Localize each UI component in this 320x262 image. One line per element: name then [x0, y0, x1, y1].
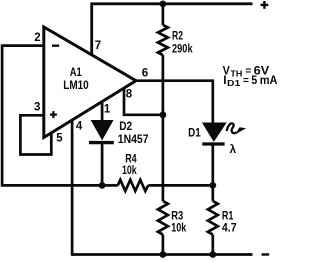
diode D2 — [89, 121, 114, 143]
svg-text:R4: R4 — [125, 154, 137, 166]
annotation VTH = 6V — [223, 63, 270, 78]
node D2/R4 junction dot — [99, 182, 106, 189]
LED lambda label — [230, 144, 237, 156]
node D1/R4/R1 junction dot — [209, 182, 216, 189]
svg-text:R2: R2 — [172, 30, 183, 42]
wire pin3 to feedback box — [20, 115, 51, 154]
svg-text:5: 5 — [56, 132, 63, 144]
svg-text:7: 7 — [95, 40, 101, 52]
svg-text:6: 6 — [142, 68, 148, 80]
node top rail to R2 junction dot — [160, 1, 167, 8]
wire pin2 from left rail to inverting input — [2, 44, 44, 47]
wire pin6 output to D1 — [136, 81, 213, 124]
pin 7 label — [95, 40, 101, 52]
svg-text:290k: 290k — [172, 44, 193, 56]
resistor R3 — [158, 201, 168, 235]
op-amp label LM10 — [63, 80, 88, 92]
R3 value label — [171, 211, 186, 235]
svg-text:A1: A1 — [70, 67, 82, 79]
svg-text:LM10: LM10 — [63, 80, 88, 92]
svg-text:10k: 10k — [171, 223, 186, 235]
svg-text:mA: mA — [260, 73, 278, 87]
svg-text:3: 3 — [34, 102, 40, 114]
svg-text:R1: R1 — [222, 211, 234, 223]
resistor R2 — [158, 25, 168, 55]
wire R2 top lead — [162, 4, 165, 25]
op-amp A1 triangle — [44, 27, 136, 138]
wire R3 bottom lead — [162, 235, 165, 255]
svg-text:=: = — [243, 75, 249, 86]
svg-text:4.7: 4.7 — [222, 223, 237, 235]
R1 value label — [222, 211, 237, 235]
svg-text:4: 4 — [76, 121, 83, 133]
wire pin4 down to negative rail — [71, 120, 74, 256]
pin 3 label — [34, 102, 40, 114]
inverting input minus marker — [52, 45, 59, 47]
svg-text:λ: λ — [230, 144, 237, 156]
node R1 ground junction dot — [209, 251, 216, 258]
wire D1 cathode down — [211, 144, 214, 185]
wire R1 upper lead — [211, 185, 214, 201]
node R3 ground junction dot — [160, 251, 167, 258]
svg-text:10k: 10k — [122, 165, 137, 177]
pin 2 label — [34, 32, 40, 44]
svg-text:D1: D1 — [188, 127, 201, 139]
svg-text:8: 8 — [126, 89, 133, 101]
resistor R4 — [118, 180, 148, 191]
annotation ID1 = 5 mA — [223, 73, 278, 88]
resistor R1 — [208, 201, 218, 235]
node pin8 feedback junction dot — [160, 111, 167, 118]
plus supply terminal — [261, 1, 269, 9]
svg-text:R3: R3 — [171, 211, 183, 223]
pin 8 label — [126, 89, 133, 101]
svg-text:D1: D1 — [227, 78, 240, 88]
R2 value label — [172, 30, 193, 55]
svg-text:1N457: 1N457 — [118, 134, 149, 146]
R4 value label — [122, 154, 137, 178]
pin 6 label — [142, 68, 148, 80]
wire left rail down to R4 row — [2, 44, 102, 185]
wire pin7 to positive top rail — [92, 4, 253, 55]
op-amp label A1 — [70, 67, 82, 79]
pin 1 label — [104, 103, 111, 115]
D1 label — [188, 127, 201, 139]
pin 5 label — [56, 132, 63, 144]
wire feedback rail from R2 to R3 — [162, 55, 165, 201]
svg-text:TH: TH — [230, 69, 242, 79]
svg-text:D2: D2 — [119, 121, 132, 133]
D2 value label — [118, 121, 149, 146]
LED emission squiggle arrow — [227, 123, 246, 134]
wire D2 cathode down to R4 node — [101, 143, 104, 185]
wire pin1 to D2 anode — [101, 102, 104, 122]
non-inverting input plus marker — [50, 111, 57, 118]
wire R4 left lead — [102, 184, 118, 187]
LED D1 — [202, 123, 226, 144]
wire negative bottom rail — [72, 253, 252, 256]
svg-text:5: 5 — [251, 73, 257, 87]
minus supply terminal — [262, 253, 270, 255]
wire R1 bottom lead — [211, 235, 214, 255]
svg-text:2: 2 — [34, 32, 40, 44]
wire pin8 to feedback node — [124, 88, 163, 115]
pin 4 label — [76, 121, 83, 133]
wire R4 right lead to D1 cathode node — [148, 184, 213, 187]
svg-text:1: 1 — [104, 103, 111, 115]
